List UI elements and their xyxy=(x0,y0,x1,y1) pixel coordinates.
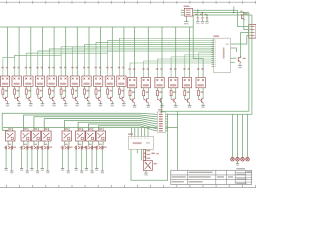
wire: +V rail segments from B1 to right edge xyxy=(193,10,252,15)
optocoupler OK11 with resistor R11 and transistor Q11 xyxy=(117,67,126,107)
relay K3 with driver transistor T3 xyxy=(30,128,42,173)
wire: control nets (staircase bus) to U1 xyxy=(3,38,214,77)
border frame bottom rule with division ticks xyxy=(0,185,256,188)
capacitor C2 xyxy=(200,12,204,24)
wire: U1 right pins xyxy=(230,58,236,62)
border frame top rule with division ticks xyxy=(0,1,256,4)
optocoupler OK3 with resistor R3 and transistor Q3 xyxy=(24,67,33,107)
title block xyxy=(171,168,252,185)
ground below B1 xyxy=(184,16,189,24)
optocoupler OK4 with resistor R4 and transistor Q4 xyxy=(35,67,44,107)
optocoupler OK16 with resistor R16 and transistor Q16 xyxy=(182,68,191,108)
IC U2 xyxy=(128,133,153,149)
wire: VCC top rail xyxy=(0,26,193,28)
relay K6 with driver transistor T6 xyxy=(74,128,86,173)
optocoupler OK7 with resistor R7 and transistor Q7 xyxy=(70,67,79,107)
relay K2 with driver transistor T2 xyxy=(19,128,31,173)
optocoupler OK6 with resistor R6 and transistor Q6 xyxy=(59,67,68,107)
wire: power input stubs left of bridge B1 xyxy=(181,10,185,15)
optocoupler OK2 with resistor R2 and transistor Q2 xyxy=(12,67,21,107)
wire: relay rail riser xyxy=(177,111,179,170)
wire: RN1 output loop to U2 xyxy=(131,114,168,181)
wire: U1 left pin stubs xyxy=(212,40,214,66)
ground below LED2 xyxy=(236,161,239,166)
LED LED2 xyxy=(236,114,240,161)
optocoupler OK13 with resistor R13 and transistor Q13 xyxy=(141,68,150,108)
wire: U2 bottom pins xyxy=(137,149,145,160)
wire: left group supply drops xyxy=(8,27,124,76)
optocoupler OK5 with resistor R5 and transistor Q5 xyxy=(47,67,56,107)
LED LED1 xyxy=(231,114,235,161)
fuse F1 label xyxy=(151,153,158,155)
wire: U2 top pins to rail xyxy=(132,128,149,137)
capacitor C3 xyxy=(205,14,209,24)
transistor Q20 xyxy=(240,11,248,20)
connector JP1 (right edge) xyxy=(249,25,256,39)
relay K4 with driver transistor T4 xyxy=(40,128,52,173)
optocoupler OK17 with resistor R17 and transistor Q17 xyxy=(196,68,205,108)
wire: +V loop lower xyxy=(168,15,252,114)
optocoupler OK15 with resistor R15 and transistor Q15 xyxy=(169,68,178,108)
wire: relay select staircase (8 nets) to RN1 xyxy=(2,113,157,131)
optocoupler OK8 with resistor R8 and transistor Q8 xyxy=(82,67,91,107)
capacitor C1 xyxy=(195,10,199,24)
resistor R22 xyxy=(144,157,151,161)
bridge rectifier B1 xyxy=(184,6,193,17)
wire: RN1 common feed xyxy=(161,98,163,113)
resistor R20 xyxy=(144,149,151,153)
wire: relay common rail xyxy=(3,128,178,132)
wire: +V loop upper xyxy=(161,13,249,112)
transistor Q19 xyxy=(238,57,246,69)
wire: rail feed from B1 xyxy=(193,15,203,78)
LED LED4 xyxy=(246,114,250,161)
ground below J1 xyxy=(144,171,148,176)
optocoupler OK12 with resistor R12 and transistor Q12 xyxy=(128,68,137,108)
resistor R21 xyxy=(144,153,151,157)
relay K7 with driver transistor T7 xyxy=(84,128,96,173)
optocoupler OK1 with resistor R1 and transistor Q1 xyxy=(0,67,9,107)
relay K1 with driver transistor T1 xyxy=(4,128,16,173)
IC U1 xyxy=(213,35,230,72)
optocoupler OK9 with resistor R9 and transistor Q9 xyxy=(94,67,103,107)
relay K5 with driver transistor T5 xyxy=(60,128,72,173)
optocoupler OK10 with resistor R10 and transistor Q10 xyxy=(105,67,114,107)
resistor network RN1 xyxy=(157,109,167,132)
wire: right group supply drops xyxy=(135,27,190,78)
wire: JP1 pin feeds xyxy=(231,7,249,57)
relay K8 with driver transistor T8 xyxy=(95,128,107,173)
optocoupler OK14 with resistor R14 and transistor Q14 xyxy=(155,68,164,108)
connector J1 xyxy=(143,161,156,171)
LED LED3 xyxy=(241,114,245,161)
